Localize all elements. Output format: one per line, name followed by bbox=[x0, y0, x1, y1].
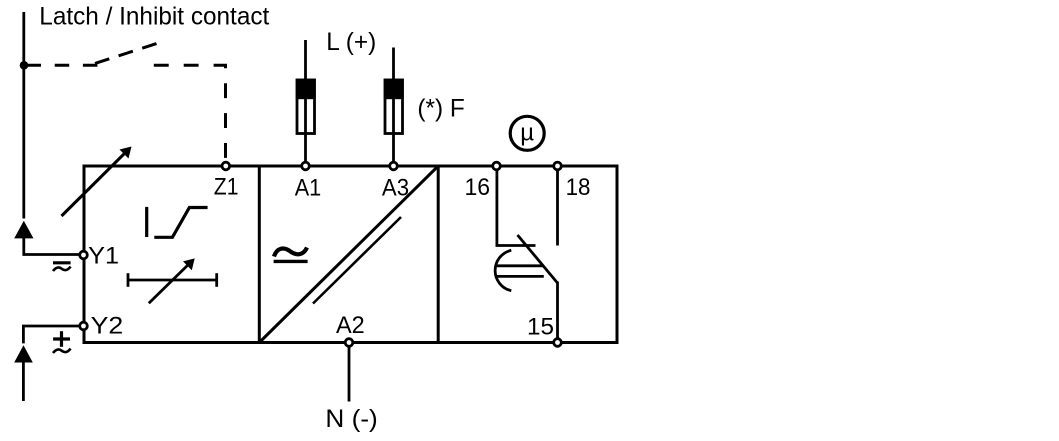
svg-text:L (+): L (+) bbox=[326, 28, 376, 56]
micro-gap symbol: circle with mu bbox=[510, 116, 544, 150]
terminal A2 bbox=[345, 339, 353, 347]
svg-text:µ: µ bbox=[520, 120, 534, 147]
svg-text:A1: A1 bbox=[295, 175, 322, 202]
function symbol: ramp-step icon bbox=[147, 207, 208, 237]
svg-text:16: 16 bbox=[465, 174, 491, 201]
terminal 18 bbox=[554, 162, 562, 170]
terminal 15 bbox=[554, 339, 562, 347]
contact function line upper bbox=[496, 264, 544, 267]
svg-text:Y2: Y2 bbox=[91, 313, 124, 340]
terminal Y1 bbox=[80, 251, 88, 259]
terminal Z1 bbox=[222, 162, 230, 170]
relay contact: NC fixed lead from 16 bbox=[497, 169, 536, 246]
relay contact: NO fixed lead from 18 bbox=[556, 169, 559, 246]
arrow on upper-left supply line bbox=[14, 221, 33, 239]
adjustable arrow across box corner bbox=[62, 151, 128, 217]
svg-text:A2: A2 bbox=[336, 312, 365, 339]
svg-text:(*) F: (*) F bbox=[417, 95, 464, 123]
divider between function and power sections bbox=[258, 166, 261, 343]
adjustable time symbol: capped bar with arrow bbox=[128, 262, 217, 304]
power supply symbol: second diagonal bbox=[313, 217, 401, 304]
wire: dashed latch line right run and drop to Z1 bbox=[154, 65, 226, 160]
svg-text:Z1: Z1 bbox=[214, 174, 239, 201]
power supply symbol: main diagonal bbox=[259, 166, 438, 343]
wire below fuse to A1 bbox=[304, 134, 307, 162]
contact function arc bbox=[495, 250, 511, 290]
wire: lower-left supply line bbox=[23, 326, 79, 401]
switch blade (latch / inhibit contact, dashed) bbox=[95, 44, 157, 64]
polarity mark plus/AC at Y2 bbox=[53, 331, 71, 353]
fuse F at A1 bbox=[296, 79, 316, 134]
terminal 16 bbox=[493, 162, 501, 170]
arrow on lower-left supply line bbox=[14, 345, 33, 362]
wire above fuse F (A3) bbox=[392, 48, 395, 81]
polarity mark minus/AC at Y1 bbox=[53, 263, 71, 271]
relay contact: moving blade bbox=[518, 235, 558, 283]
terminal A3 bbox=[390, 162, 398, 170]
wire below A2 bbox=[348, 348, 351, 402]
svg-text:Latch / Inhibit contact: Latch / Inhibit contact bbox=[39, 3, 269, 31]
wire above fuse F (A1) bbox=[304, 40, 307, 80]
device box outline bbox=[84, 166, 617, 343]
terminal Y2 bbox=[80, 322, 88, 330]
svg-text:18: 18 bbox=[566, 174, 591, 201]
wire below fuse to A3 bbox=[392, 134, 395, 162]
svg-text:N (-): N (-) bbox=[325, 405, 377, 433]
wire: dashed latch line horizontal left run bbox=[28, 64, 98, 67]
contact function line lower bbox=[496, 275, 544, 278]
terminal A1 bbox=[302, 162, 310, 170]
power supply symbol: AC/DC tilde-bar bbox=[274, 248, 308, 262]
divider between power and relay sections bbox=[437, 166, 440, 343]
fuse F at A3 bbox=[384, 79, 404, 134]
wire: common riser to 15 bbox=[556, 282, 559, 340]
svg-text:15: 15 bbox=[527, 314, 554, 341]
svg-text:Y1: Y1 bbox=[88, 242, 119, 269]
node: junction dot on latch line bbox=[20, 61, 29, 70]
wire: upper-left supply line bbox=[24, 12, 79, 255]
